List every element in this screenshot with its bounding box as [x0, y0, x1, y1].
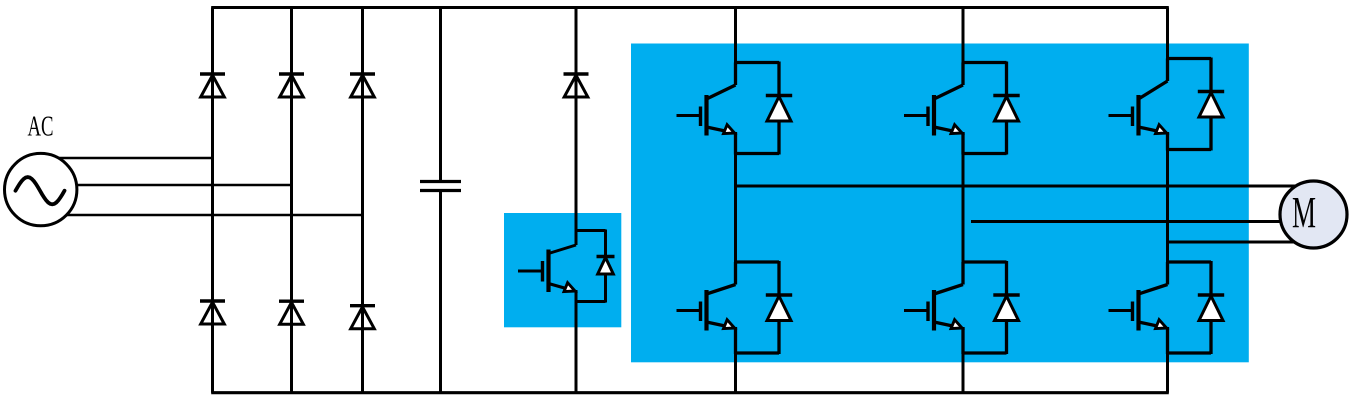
transistor inverter U low-side IGBT [734, 262, 737, 285]
transistor inverter V low-side IGBT [961, 262, 964, 285]
diode rectifier bottom D6 [350, 304, 375, 307]
diode brake chopper freewheel [598, 258, 614, 275]
diode inverter W high-side freewheel [1199, 93, 1223, 118]
wire inverter V high-side collector top node [963, 61, 1007, 64]
wire rectifier leg 1 [211, 8, 214, 393]
wire bottom DC bus rail [211, 391, 1169, 394]
brake chopper highlight box [504, 213, 621, 327]
wire inverter U low-side emitter bottom node [736, 351, 780, 354]
wire inverter W high-side collector top node [1168, 57, 1212, 60]
wire inverter U high-side freewheel diode branch [777, 62, 780, 155]
transistor inverter U high-side IGBT [734, 63, 737, 86]
wire inverter leg W to bottom rail [1166, 353, 1169, 393]
wire inverter leg V to bottom rail [962, 353, 965, 393]
wire rectifier leg 2 [290, 8, 293, 393]
wire brake chopper freewheel diode branch [604, 230, 607, 303]
wire brake emitter to bottom rail [575, 296, 578, 393]
wire inverter U high-side emitter bottom node [736, 152, 780, 155]
diode inverter U high-side freewheel [767, 97, 791, 122]
wire inverter W low-side collector top node [1168, 260, 1212, 263]
wire inverter W low-side emitter bottom node [1168, 351, 1212, 354]
wire brake chopper emitter bottom node [576, 300, 606, 303]
wire capacitor branch top [439, 8, 442, 182]
wire inverter U high-side collector top node [736, 61, 780, 64]
wire inverter W high-side freewheel diode branch [1209, 58, 1212, 151]
diode inverter V low-side freewheel [995, 296, 1019, 321]
diode inverter W low-side freewheel [1199, 296, 1223, 321]
diode rectifier top D2 [279, 72, 304, 75]
diode rectifier bottom D5 [279, 300, 304, 303]
wire inverter U low-side freewheel diode branch [777, 261, 780, 354]
wire capacitor branch bottom [439, 191, 442, 393]
wire inverter leg U to bottom rail [734, 353, 737, 393]
capacitor C1 [420, 180, 461, 183]
wire inverter W low-side freewheel diode branch [1209, 261, 1212, 354]
wire inverter U low-side collector top node [736, 260, 780, 263]
wire inverter leg V from top rail [962, 8, 965, 64]
wire top DC bus rail [211, 6, 1169, 9]
transistor inverter V high-side IGBT [961, 63, 964, 86]
transistor brake chopper IGBT [575, 231, 578, 246]
diode brake branch D7 [564, 72, 589, 75]
wire phase U output to motor [736, 185, 1301, 188]
wire AC phase a to rectifier leg 1 [40, 157, 214, 160]
wire inverter V low-side emitter bottom node [963, 351, 1007, 354]
wire inverter W high-side emitter bottom node [1168, 148, 1212, 151]
wire inverter V low-side collector top node [963, 260, 1007, 263]
transistor inverter W high-side IGBT [1166, 59, 1169, 82]
wire inverter leg W midpoint [1166, 150, 1169, 264]
wire brake chopper collector top node [576, 229, 606, 232]
wire inverter V low-side freewheel diode branch [1005, 261, 1008, 354]
wire phase V output to motor [971, 220, 1290, 223]
wire inverter leg U from top rail [734, 8, 737, 64]
wire inverter V high-side emitter bottom node [963, 152, 1007, 155]
svg-text:AC: AC [28, 112, 54, 143]
wire phase W output to motor [1168, 241, 1301, 244]
wire brake branch from top rail [575, 8, 578, 231]
diode rectifier top D1 [200, 72, 225, 75]
wire rectifier leg 3 [361, 8, 364, 393]
wire inverter leg W from top rail [1166, 8, 1169, 60]
inverter highlight box [631, 44, 1249, 363]
wire AC phase b to rectifier leg 2 [40, 184, 293, 187]
wire inverter leg V midpoint [962, 154, 965, 264]
motor M [1280, 181, 1347, 248]
transistor inverter W low-side IGBT [1166, 262, 1169, 285]
diode rectifier top D3 [350, 72, 375, 75]
AC source [5, 153, 77, 225]
wire inverter V high-side freewheel diode branch [1005, 62, 1008, 155]
diode rectifier bottom D4 [200, 299, 225, 302]
diode inverter U low-side freewheel [767, 296, 791, 321]
wire AC phase c to rectifier leg 3 [40, 214, 364, 217]
wire inverter leg U midpoint [734, 154, 737, 264]
diode inverter V high-side freewheel [995, 97, 1019, 122]
svg-text:M: M [1292, 188, 1316, 237]
